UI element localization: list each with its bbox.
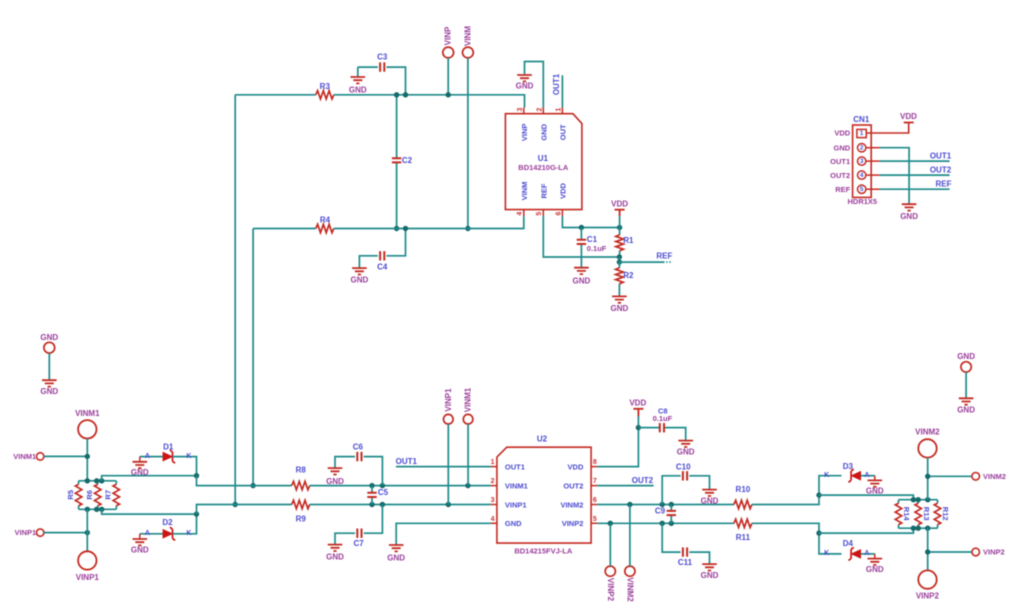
svg-text:0.1uF: 0.1uF (587, 244, 607, 253)
svg-text:3: 3 (860, 158, 864, 165)
svg-text:GND: GND (387, 554, 405, 563)
svg-text:VINM2: VINM2 (626, 577, 635, 602)
wire U2 pin 5 row left (597, 522, 734, 524)
svg-text:C5: C5 (378, 488, 389, 497)
resistor R4 (316, 216, 334, 233)
svg-text:3: 3 (517, 108, 524, 112)
svg-text:D2: D2 (162, 518, 173, 527)
svg-text:OUT1: OUT1 (505, 462, 525, 471)
svg-text:GND: GND (834, 143, 851, 152)
junction dot C4/R4 row (403, 226, 408, 231)
svg-text:GND: GND (701, 571, 719, 580)
svg-text:VINM1: VINM1 (505, 481, 528, 490)
svg-text:R5: R5 (66, 490, 75, 500)
svg-text:R11: R11 (736, 533, 751, 542)
resistor R10 (734, 485, 752, 509)
resistor R3 (316, 82, 334, 99)
svg-text:VINP: VINP (444, 26, 453, 45)
svg-text:R6: R6 (85, 490, 94, 500)
junction dots R9 row (369, 502, 451, 507)
wire U2 pin 6 row left (597, 504, 734, 506)
connector CN1 HDR1X5 (830, 115, 877, 206)
svg-text:OUT2: OUT2 (632, 476, 654, 485)
resistor R11 (734, 519, 752, 542)
svg-text:VINP2: VINP2 (606, 578, 615, 602)
junction dots top rail (right network) (911, 497, 931, 502)
svg-text:R4: R4 (320, 216, 331, 225)
svg-text:A: A (864, 472, 869, 479)
ground for C11 (701, 564, 719, 580)
op-amp U2 BD14215FVJ-LA (491, 435, 598, 556)
svg-text:C9: C9 (655, 507, 666, 516)
svg-text:C7: C7 (353, 539, 364, 548)
svg-text:REF: REF (936, 179, 952, 188)
svg-text:R13: R13 (922, 507, 931, 521)
power VDD (U2) (629, 399, 646, 417)
junction dot D3/pin6 node (816, 492, 821, 497)
resistor R8 (292, 466, 310, 490)
connector VINP2 (below U2) (605, 523, 615, 601)
wire VINP1 main vertical (86, 509, 88, 551)
junction dot VINM1 tap (85, 454, 90, 459)
diode D1 (140, 443, 197, 476)
svg-text:GND: GND (900, 212, 918, 221)
resistor R2 (616, 262, 634, 296)
svg-text:VINP2: VINP2 (562, 519, 584, 528)
svg-text:REF: REF (539, 183, 548, 198)
ground for C10 (701, 490, 719, 506)
svg-text:7: 7 (593, 478, 597, 485)
junction dot C1 top (579, 225, 584, 230)
svg-text:GND: GND (351, 276, 369, 285)
svg-text:GND: GND (40, 387, 58, 396)
connector VINP2 (bottom) (916, 570, 940, 600)
ground for left GND connector (40, 380, 58, 396)
junction dot D4/pin5 node (816, 530, 821, 535)
svg-text:C10: C10 (676, 462, 691, 471)
svg-text:GND: GND (131, 468, 149, 477)
capacitor C10 (662, 462, 709, 504)
wire CN1 pin 3 stub (866, 160, 880, 162)
svg-text:6: 6 (555, 212, 562, 216)
svg-text:R1: R1 (623, 236, 634, 245)
connector VINP1 (above U2) (444, 388, 454, 505)
wire and net label OUT1 (CN1) (880, 151, 952, 161)
capacitor C9 (655, 505, 676, 524)
capacitor C11 (662, 523, 709, 567)
wire U1 pin 1 OUT1 stub (552, 73, 562, 107)
svg-text:R8: R8 (296, 466, 307, 475)
wire CN1 pin 2 to ground (880, 148, 909, 204)
resistor R12 (934, 500, 950, 529)
wire VINP2 main vertical (927, 528, 929, 570)
svg-text:C4: C4 (377, 262, 388, 271)
svg-text:VDD: VDD (568, 462, 584, 471)
resistor R13 (915, 500, 931, 529)
capacitor C7 (335, 505, 382, 549)
svg-text:R3: R3 (320, 82, 331, 91)
svg-text:GND: GND (516, 81, 534, 90)
svg-text:K: K (186, 530, 191, 537)
svg-text:GND: GND (701, 497, 719, 506)
svg-text:OUT2: OUT2 (830, 171, 850, 180)
capacitor C8 0.1uF (638, 407, 685, 441)
svg-text:GND: GND (611, 304, 629, 313)
wire R3 row left segment (235, 94, 316, 96)
svg-text:VDD: VDD (559, 183, 568, 199)
wire U2 pin 8 to VDD node (597, 416, 638, 467)
svg-text:R12: R12 (941, 507, 950, 521)
svg-text:VDD: VDD (900, 112, 917, 121)
junction dots bottom rail (left network) (85, 507, 105, 512)
junction dot VINP2 tap (925, 549, 930, 554)
svg-text:2: 2 (491, 478, 495, 485)
svg-text:1: 1 (491, 459, 495, 466)
svg-text:GND: GND (326, 553, 344, 562)
junction dots pin 6 row (627, 502, 674, 507)
svg-text:K: K (824, 550, 829, 557)
svg-text:OUT2: OUT2 (930, 165, 952, 174)
svg-text:GND: GND (573, 276, 591, 285)
svg-text:U2: U2 (537, 435, 548, 444)
svg-text:OUT1: OUT1 (552, 73, 561, 95)
wire CN1 pin 2 stub (866, 147, 880, 149)
ground for C7 (326, 545, 344, 562)
connector VINP2 (right) (928, 548, 1005, 557)
ground for CN1 pin 2 (900, 204, 918, 221)
wire U1 pin 6 to VDD node (562, 216, 619, 227)
junction dots top rail (left network) (85, 478, 105, 483)
svg-text:BD14215FVJ-LA: BD14215FVJ-LA (514, 546, 573, 555)
ground for right GND connector (957, 398, 975, 414)
connector GND (left) (40, 333, 58, 380)
svg-text:VINM2: VINM2 (915, 428, 940, 437)
resistor R14 (895, 500, 911, 529)
junction dot VDD node (U2) (636, 425, 641, 430)
svg-text:VINP1: VINP1 (76, 573, 100, 582)
junction dot VINM1 row / second vertical (250, 483, 255, 488)
ground for U2 pin 4 (387, 545, 405, 563)
junction dots pin 5 row (608, 521, 674, 526)
wire R3 row right segment to U1 pin 3 (334, 95, 525, 108)
svg-text:BD14210G-LA: BD14210G-LA (518, 163, 569, 172)
svg-text:CN1: CN1 (853, 115, 870, 124)
svg-text:6: 6 (593, 497, 597, 504)
svg-text:VINM2: VINM2 (983, 472, 1006, 481)
wire CN1 pin 1 to VDD (866, 123, 908, 133)
capacitor C3 (358, 52, 406, 95)
svg-text:C1: C1 (587, 235, 598, 244)
op-amp U1 BD14210G-LA (505, 107, 582, 216)
svg-text:VINP2: VINP2 (916, 592, 940, 601)
wire CN1 pin 5 stub (866, 188, 880, 190)
power VDD (U1) (611, 199, 628, 227)
wire resistor network rails (right) (899, 500, 938, 529)
ground for D3 anode (866, 476, 884, 496)
ground for D2 anode (131, 534, 149, 555)
svg-text:GND: GND (866, 565, 884, 574)
svg-text:R10: R10 (736, 485, 751, 494)
svg-text:GND: GND (349, 85, 367, 94)
wire VINP1 node jog to R9 row (197, 505, 292, 515)
wire long vertical from R3 row down to VINP1 row (234, 95, 236, 505)
svg-text:2: 2 (860, 144, 864, 151)
svg-text:VINP1: VINP1 (505, 500, 527, 509)
svg-text:GND: GND (131, 545, 149, 554)
svg-text:2: 2 (537, 108, 544, 112)
svg-text:D1: D1 (163, 443, 174, 452)
svg-text:VINP1: VINP1 (444, 388, 453, 412)
svg-text:R9: R9 (296, 514, 307, 523)
svg-text:C3: C3 (377, 52, 388, 61)
svg-text:OUT1: OUT1 (396, 457, 418, 466)
capacitor C1 0.1uF (577, 228, 607, 268)
svg-text:VDD: VDD (629, 399, 646, 408)
svg-text:A: A (864, 550, 869, 557)
wire VINP1 rail to D2 node (102, 509, 197, 514)
svg-text:GND: GND (539, 123, 548, 140)
connector VINM2 (right) (928, 472, 1006, 481)
svg-text:1: 1 (860, 130, 864, 137)
svg-text:A: A (145, 530, 150, 537)
svg-text:GND: GND (505, 519, 522, 528)
junction dot REF upper (617, 254, 622, 259)
connector VINM1 (above U2) (463, 387, 473, 485)
junction dot VDD node (617, 225, 622, 230)
junction dots R8 row (369, 483, 470, 488)
ground for R2 (611, 296, 629, 313)
svg-text:VINM1: VINM1 (13, 452, 36, 461)
junction dot VINP/R3 row (446, 92, 451, 97)
svg-text:A: A (145, 453, 150, 460)
resistor R1 (616, 228, 634, 258)
svg-text:GND: GND (40, 333, 58, 342)
wire R9 row to U2 pin 3 (310, 504, 491, 506)
svg-text:VINP2: VINP2 (983, 548, 1005, 557)
resistor R6 (85, 481, 101, 510)
wire CN1 pin 4 stub (866, 174, 880, 176)
ground for D4 anode (866, 554, 884, 574)
svg-text:VDD: VDD (611, 199, 628, 208)
ground for C6 (326, 468, 344, 486)
connector VINM2 (top) (915, 428, 940, 500)
ground for D1 anode (131, 457, 149, 478)
svg-text:4: 4 (517, 212, 524, 216)
wire R4 row left segment (253, 228, 316, 230)
resistor R5 (66, 481, 82, 510)
wire U2 pin 4 to ground (396, 523, 491, 544)
svg-text:VINM: VINM (463, 26, 472, 46)
ground for U1 pin 2 (516, 75, 534, 90)
svg-text:D4: D4 (843, 539, 854, 548)
svg-text:HDR1X5: HDR1X5 (848, 197, 878, 206)
svg-text:C11: C11 (678, 558, 693, 567)
svg-text:VINM1: VINM1 (464, 387, 473, 412)
wire and net label OUT1 (U2 pin 1) (396, 457, 491, 467)
ground for C3 (349, 67, 367, 94)
resistor R7 (104, 481, 120, 510)
svg-text:C2: C2 (402, 156, 413, 165)
wire resistor network rails (left) (79, 481, 117, 510)
svg-text:GND: GND (957, 405, 975, 414)
svg-text:GND: GND (677, 448, 695, 457)
svg-text:GND: GND (957, 352, 975, 361)
connector VINP (443, 26, 454, 95)
svg-text:REF: REF (656, 252, 672, 261)
wire D3 node to right network (819, 495, 913, 500)
ground for C8 (677, 441, 695, 457)
junction dot D1/VINM1 node (194, 473, 199, 478)
wire REF jog (618, 257, 620, 262)
svg-text:K: K (824, 472, 829, 479)
ground for C4 (351, 268, 369, 285)
wire and net label REF (CN1) (880, 179, 952, 189)
junction dot VINP1 row / left vertical (233, 502, 238, 507)
capacitor C4 (359, 229, 405, 272)
resistor R9 (292, 500, 310, 523)
svg-text:5: 5 (536, 212, 543, 216)
wire VINM1 node jog to R8 row (197, 476, 292, 486)
svg-text:OUT1: OUT1 (930, 151, 952, 160)
capacitor C2 (392, 95, 413, 229)
connector VINM2 (below U2) (625, 505, 635, 603)
svg-text:3: 3 (491, 497, 495, 504)
svg-text:VINM: VINM (520, 182, 529, 201)
connector VINP1 (left) (15, 528, 88, 537)
junction dot C3/R3 row (403, 92, 408, 97)
wire and net label REF (619, 252, 672, 263)
wire pin 6 row right to D3 node (752, 495, 819, 504)
svg-text:VINP1: VINP1 (15, 528, 37, 537)
svg-text:8: 8 (593, 459, 597, 466)
svg-text:OUT: OUT (559, 124, 568, 140)
svg-text:0.1uF: 0.1uF (653, 414, 673, 423)
junction dot C2 bottom (394, 226, 399, 231)
wire VINM1 rail to D1 node (102, 476, 197, 481)
svg-text:GND: GND (326, 477, 344, 486)
svg-text:R2: R2 (623, 271, 634, 280)
power VDD (CN1) (900, 112, 917, 122)
connector GND (right) (957, 352, 975, 398)
svg-text:OUT2: OUT2 (563, 481, 583, 490)
junction dot D2/VINP1 node (194, 511, 199, 516)
diode D4 (819, 533, 875, 560)
wire D4 node to right network (819, 528, 913, 533)
svg-text:5: 5 (860, 186, 864, 193)
junction dot VINP1 tap (85, 530, 90, 535)
svg-text:R7: R7 (104, 490, 113, 500)
svg-text:4: 4 (491, 516, 495, 523)
junction dot REF lower (617, 259, 622, 264)
svg-text:VINP: VINP (520, 124, 529, 142)
svg-text:VINM2: VINM2 (560, 500, 583, 509)
junction dot VINM2 tap (925, 474, 930, 479)
connector VINM (463, 26, 474, 229)
svg-text:K: K (186, 453, 191, 460)
junction dot C2 top (394, 92, 399, 97)
svg-text:REF: REF (835, 185, 850, 194)
capacitor C5 (367, 486, 388, 505)
connector VINP1 (bottom) (76, 551, 100, 582)
svg-text:R14: R14 (902, 507, 911, 522)
diode D2 (140, 514, 197, 540)
wire pin 5 row right to D4 node (752, 523, 819, 533)
capacitor C6 (335, 443, 382, 486)
wire R8 row to U2 pin 2 (310, 485, 491, 487)
svg-text:VDD: VDD (834, 129, 850, 138)
wire long vertical from R4 row down to VINM1 row (252, 229, 254, 486)
connector VINM1 (top) (75, 409, 100, 481)
wire U1 pin 2 to ground (525, 62, 544, 108)
junction dots bottom rail (right network) (911, 526, 931, 531)
wire R4 row right segment to U1 pin 4 (334, 216, 524, 228)
svg-text:4: 4 (860, 172, 864, 179)
svg-text:VINM1: VINM1 (75, 409, 100, 418)
wire U1 pin 5 to REF node (543, 216, 619, 257)
svg-text:OUT1: OUT1 (830, 157, 850, 166)
wire and net label OUT2 (U2 pin 7) (597, 476, 653, 485)
wire and net label OUT2 (CN1) (880, 165, 952, 175)
junction dot VINM/R4 row (465, 226, 470, 231)
connector VINM1 (left) (13, 452, 87, 461)
svg-text:1: 1 (556, 108, 563, 112)
svg-text:5: 5 (593, 516, 597, 523)
svg-text:C6: C6 (353, 443, 364, 452)
svg-text:U1: U1 (538, 154, 549, 163)
diode D3 (819, 462, 875, 495)
ground for C1 (573, 268, 591, 286)
